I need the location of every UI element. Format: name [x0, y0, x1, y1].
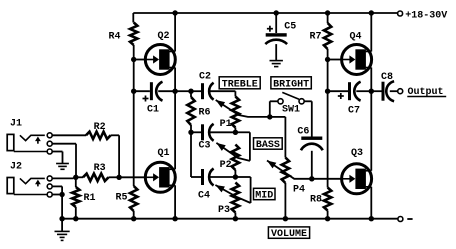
svg-text:P1: P1 [220, 119, 232, 130]
svg-text:R5: R5 [116, 193, 128, 204]
svg-text:BASS: BASS [256, 140, 280, 151]
svg-text:+18-30V: +18-30V [405, 10, 447, 21]
svg-text:J1: J1 [10, 119, 22, 130]
svg-text:J2: J2 [10, 162, 22, 173]
svg-text:VOLUME: VOLUME [271, 229, 307, 240]
svg-text:R2: R2 [94, 122, 106, 133]
svg-text:R7: R7 [310, 31, 322, 42]
svg-text:C5: C5 [284, 22, 296, 33]
svg-text:C7: C7 [348, 106, 360, 117]
svg-text:R4: R4 [109, 31, 121, 42]
svg-text:SW1: SW1 [282, 105, 300, 116]
svg-text:C6: C6 [297, 127, 309, 138]
svg-text:C3: C3 [199, 140, 211, 151]
svg-text:BRIGHT: BRIGHT [273, 79, 309, 90]
svg-text:C2: C2 [199, 71, 211, 82]
svg-text:TREBLE: TREBLE [222, 79, 258, 90]
svg-text:P2: P2 [220, 160, 232, 171]
svg-text:C4: C4 [198, 190, 210, 201]
svg-text:R1: R1 [84, 193, 96, 204]
svg-text:P4: P4 [293, 185, 305, 196]
svg-text:R3: R3 [94, 163, 106, 174]
svg-text:C8: C8 [381, 72, 393, 83]
svg-text:R8: R8 [310, 194, 322, 205]
svg-text:P3: P3 [218, 205, 230, 216]
svg-text:Q2: Q2 [158, 31, 170, 42]
svg-text:C1: C1 [147, 105, 159, 116]
svg-text:R6: R6 [199, 108, 211, 119]
svg-text:Q3: Q3 [351, 148, 363, 159]
svg-text:MID: MID [255, 190, 273, 201]
svg-text:Q4: Q4 [350, 31, 362, 42]
svg-text:Q1: Q1 [158, 148, 170, 159]
